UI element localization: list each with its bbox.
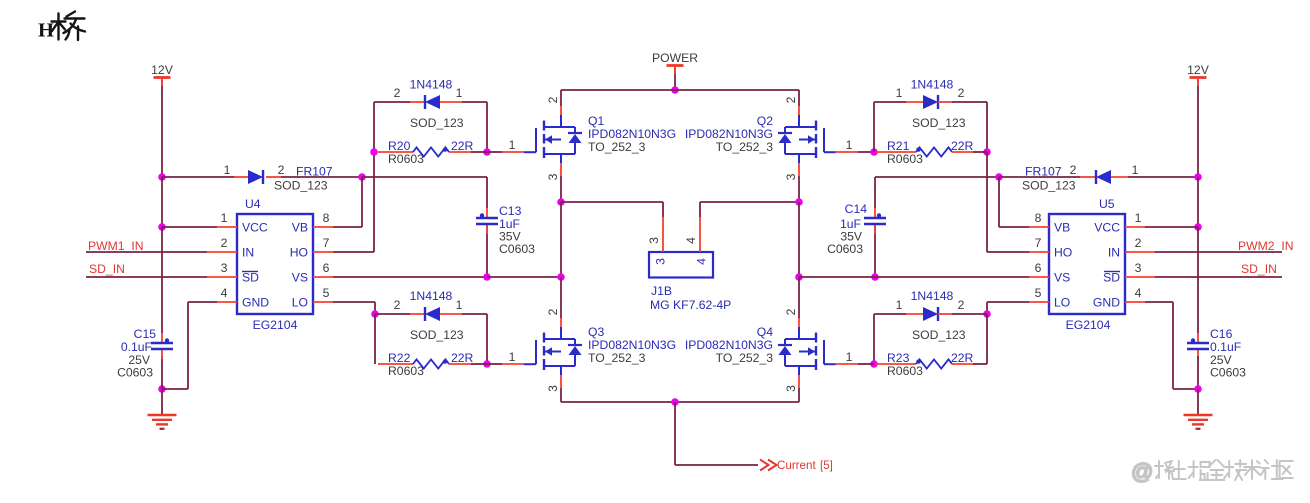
svg-text:C14: C14 xyxy=(845,202,868,216)
Q2 pin 3 (source) xyxy=(784,163,799,180)
svg-text:IPD082N10N3G: IPD082N10N3G xyxy=(588,338,676,352)
svg-text:Q4: Q4 xyxy=(757,325,773,339)
svg-text:MG KF7.62-4P: MG KF7.62-4P xyxy=(650,298,731,312)
svg-text:2: 2 xyxy=(1070,163,1077,177)
U5 designator xyxy=(1099,197,1115,211)
svg-text:TO_252_3: TO_252_3 xyxy=(588,351,646,365)
Q2 designator xyxy=(757,114,773,128)
U4 footprint EG2104 xyxy=(253,318,298,332)
svg-text:Q2: Q2 xyxy=(757,114,773,128)
U5 pin 4 GND xyxy=(1093,286,1145,310)
diode D 1N4148 lower-left xyxy=(410,307,462,321)
1N4148 lower-right pin 1 xyxy=(896,298,903,312)
U5 footprint EG2104 xyxy=(1066,318,1111,332)
Q1 designator xyxy=(588,114,604,128)
net label PWM1_IN xyxy=(88,239,144,253)
wire xyxy=(161,177,163,227)
svg-text:HO: HO xyxy=(1054,246,1072,260)
C16 voltage 25V xyxy=(1210,353,1233,367)
wire xyxy=(162,302,217,389)
U4 pin 7 HO xyxy=(290,236,333,260)
svg-text:22R: 22R xyxy=(951,351,974,365)
wire xyxy=(281,176,362,178)
wire xyxy=(471,151,487,153)
Q3 pin 3 (source) xyxy=(546,375,561,392)
svg-text:1: 1 xyxy=(846,350,853,364)
svg-text:C15: C15 xyxy=(134,327,157,341)
Q4 pin 2 (drain) xyxy=(784,308,799,327)
svg-text:3: 3 xyxy=(647,237,661,244)
U5 pin 6 VS xyxy=(1029,261,1070,285)
svg-text:C0603: C0603 xyxy=(117,366,153,380)
node 12V rail / U4 VCC xyxy=(158,223,166,231)
wire xyxy=(835,363,874,365)
diode D 1N4148 lower-right xyxy=(906,307,952,321)
svg-text:3: 3 xyxy=(221,261,228,275)
1N4148 upper-right designator xyxy=(911,78,954,92)
svg-text:VB: VB xyxy=(1054,221,1070,235)
connector J1B xyxy=(649,252,713,278)
C16 value 0.1uF xyxy=(1210,340,1241,354)
wire xyxy=(161,227,163,333)
U4 pin 5 LO xyxy=(292,286,333,310)
diode FR107 right xyxy=(1080,170,1128,184)
Q4 footprint TO_252_3 xyxy=(716,351,774,365)
1N4148 upper-left designator xyxy=(410,78,453,92)
svg-text:TO_252_3: TO_252_3 xyxy=(716,351,774,365)
svg-text:C0603: C0603 xyxy=(1210,366,1246,380)
C14 voltage 35V xyxy=(840,230,863,244)
svg-text:1: 1 xyxy=(509,350,516,364)
svg-text:2: 2 xyxy=(784,96,798,103)
1N4148 upper-left pin 2 xyxy=(394,86,401,100)
net label Current [5] with off-sheet arrow xyxy=(760,459,833,472)
svg-text:1: 1 xyxy=(1135,211,1142,225)
J1B pin 4 xyxy=(684,217,709,265)
node FR107 right cathode / VB tap xyxy=(995,173,1003,181)
wire xyxy=(799,276,875,278)
U5 pin 5 LO xyxy=(1029,286,1070,310)
R20 footprint R0603 xyxy=(388,152,424,166)
svg-text:IPD082N10N3G: IPD082N10N3G xyxy=(685,127,773,141)
svg-text:8: 8 xyxy=(323,211,330,225)
R22 footprint R0603 xyxy=(388,364,424,378)
wire xyxy=(560,90,562,106)
svg-text:4: 4 xyxy=(684,237,698,244)
svg-text:1N4148: 1N4148 xyxy=(911,289,954,303)
wire xyxy=(560,277,562,318)
node bottom bus / current shunt xyxy=(671,398,679,406)
svg-text:7: 7 xyxy=(1035,236,1042,250)
svg-text:SD_IN: SD_IN xyxy=(1241,262,1277,276)
wire xyxy=(835,151,874,153)
Q1 footprint TO_252_3 xyxy=(588,140,646,154)
Q1 pin 2 (drain) xyxy=(546,96,561,115)
FR107 left pin 2 xyxy=(278,163,285,177)
wire xyxy=(86,251,207,253)
R21 designator xyxy=(887,139,910,153)
diode D 1N4148 upper-right xyxy=(906,95,952,109)
1N4148 lower-right designator xyxy=(911,289,954,303)
wire xyxy=(1155,276,1282,278)
svg-text:LO: LO xyxy=(1054,296,1070,310)
svg-text:4: 4 xyxy=(1135,286,1142,300)
svg-text:0.1uF: 0.1uF xyxy=(121,340,152,354)
svg-text:12V: 12V xyxy=(1187,63,1210,77)
U5 pin 3 SD xyxy=(1103,261,1155,285)
resistor R23 xyxy=(876,359,973,368)
svg-text:5: 5 xyxy=(1035,286,1042,300)
wire xyxy=(560,176,562,202)
FR107 right pin 2 xyxy=(1070,163,1077,177)
C14 value 1uF xyxy=(840,217,861,231)
power port 12V (right) xyxy=(1187,63,1210,87)
capacitor C15 xyxy=(151,333,173,359)
wire xyxy=(999,177,1029,227)
wire xyxy=(1197,356,1199,389)
wire xyxy=(161,356,163,414)
node C16 / GND net right xyxy=(1194,385,1202,393)
svg-text:8: 8 xyxy=(1035,211,1042,225)
svg-text:3: 3 xyxy=(784,173,798,180)
C16 designator xyxy=(1210,327,1233,341)
svg-text:IPD082N10N3G: IPD082N10N3G xyxy=(588,127,676,141)
svg-text:1: 1 xyxy=(224,163,231,177)
node phase B node xyxy=(795,198,803,206)
wire xyxy=(487,151,524,153)
C13 voltage 35V xyxy=(499,230,522,244)
U4 pin 6 VS xyxy=(292,261,333,285)
capacitor C13 xyxy=(476,208,498,277)
Q4 designator xyxy=(757,325,773,339)
U4 designator xyxy=(245,197,261,211)
svg-text:TO_252_3: TO_252_3 xyxy=(716,140,774,154)
Q3 pin 2 (drain) xyxy=(546,308,561,327)
C15 voltage 25V xyxy=(128,353,151,367)
transistor Q2 xyxy=(778,115,836,163)
U4 pin 2 IN xyxy=(207,236,254,260)
Q1 pin 3 (source) xyxy=(546,163,561,180)
op-amp driver U5 EG2104 box xyxy=(1049,214,1125,314)
schematic title H-bridge xyxy=(38,12,85,42)
svg-text:6: 6 xyxy=(323,261,330,275)
svg-text:U5: U5 xyxy=(1099,197,1115,211)
wire xyxy=(333,102,374,252)
Q4 pin 3 (source) xyxy=(784,375,799,392)
node C13 low / VS net xyxy=(483,273,491,281)
wire xyxy=(798,202,800,277)
wire xyxy=(375,313,410,315)
svg-text:EG2104: EG2104 xyxy=(253,318,298,332)
svg-text:HO: HO xyxy=(290,246,308,260)
C14 designator xyxy=(845,202,868,216)
svg-text:2: 2 xyxy=(278,163,285,177)
wire xyxy=(874,313,906,315)
svg-text:SD: SD xyxy=(1103,271,1120,285)
U5 pin 2 IN xyxy=(1108,236,1155,260)
svg-text:2: 2 xyxy=(394,298,401,312)
svg-text:2: 2 xyxy=(784,308,798,315)
1N4148 lower-left pin 1 xyxy=(456,298,463,312)
R23 value 22R xyxy=(951,351,974,365)
svg-text:1: 1 xyxy=(896,298,903,312)
svg-text:Current: Current xyxy=(777,459,816,472)
svg-text:1: 1 xyxy=(1132,163,1139,177)
transistor Q1 xyxy=(524,115,582,163)
svg-text:LO: LO xyxy=(292,296,308,310)
svg-text:GND: GND xyxy=(242,296,269,310)
svg-text:SD_IN: SD_IN xyxy=(89,262,125,276)
svg-text:@: @ xyxy=(1131,459,1153,484)
svg-text:2: 2 xyxy=(546,96,560,103)
svg-text:0.1uF: 0.1uF xyxy=(1210,340,1241,354)
wire xyxy=(875,276,1029,278)
node C15 / GND net xyxy=(158,385,166,393)
svg-text:4: 4 xyxy=(221,286,228,300)
1N4148 upper-left pin 1 xyxy=(456,86,463,100)
1N4148 upper-right footprint SOD_123 xyxy=(912,116,966,130)
Q3 footprint TO_252_3 xyxy=(588,351,646,365)
FR107 left designator xyxy=(296,165,333,179)
Q3 value IPD082N10N3G xyxy=(588,338,676,352)
svg-text:22R: 22R xyxy=(951,139,974,153)
svg-text:VB: VB xyxy=(292,221,308,235)
FR107 right footprint SOD_123 xyxy=(1022,179,1076,193)
wire xyxy=(873,102,875,152)
wire xyxy=(561,401,799,403)
node R20 left / HO net xyxy=(370,148,378,156)
svg-text:1N4148: 1N4148 xyxy=(410,78,453,92)
wire xyxy=(700,202,799,217)
wire xyxy=(798,277,800,318)
FR107 right pin 1 xyxy=(1132,163,1139,177)
svg-text:Q1: Q1 xyxy=(588,114,604,128)
1N4148 lower-right footprint SOD_123 xyxy=(912,328,966,342)
svg-text:R23: R23 xyxy=(887,351,910,365)
svg-text:U4: U4 xyxy=(245,197,261,211)
svg-text:C0603: C0603 xyxy=(827,242,863,256)
wire xyxy=(798,90,800,106)
Q1 pin 1 (gate) xyxy=(509,138,516,152)
svg-text:1N4148: 1N4148 xyxy=(911,78,954,92)
wire xyxy=(1145,226,1198,228)
node R23 left / gate Q4 xyxy=(870,360,878,368)
wire xyxy=(560,388,562,402)
C16 footprint C0603 xyxy=(1210,366,1246,380)
U4 pin 8 VB xyxy=(292,211,333,235)
1N4148 lower-left designator xyxy=(410,289,453,303)
wire xyxy=(462,314,487,364)
node VS-B / Q4 drain xyxy=(795,273,803,281)
svg-text:[5]: [5] xyxy=(820,459,833,472)
capacitor C16 xyxy=(1187,333,1209,359)
svg-text:GND: GND xyxy=(1093,296,1120,310)
svg-text:R0603: R0603 xyxy=(887,364,923,378)
C14 footprint C0603 xyxy=(827,242,863,256)
diode FR107 left xyxy=(234,170,281,184)
node 12V rail / U5 VCC xyxy=(1194,223,1202,231)
Q2 pin 1 (gate) xyxy=(846,138,853,152)
svg-text:3: 3 xyxy=(1135,261,1142,275)
net label SD_IN (left) xyxy=(89,262,125,276)
Q1 value IPD082N10N3G xyxy=(588,127,676,141)
svg-text:SOD_123: SOD_123 xyxy=(410,328,464,342)
svg-text:R21: R21 xyxy=(887,139,910,153)
U5 pin 8 VB xyxy=(1029,211,1070,235)
wire xyxy=(161,86,163,177)
C15 value 0.1uF xyxy=(121,340,152,354)
wire xyxy=(374,314,376,364)
diode D 1N4148 upper-left xyxy=(410,95,462,109)
R22 value 22R xyxy=(451,351,474,365)
transistor Q4 xyxy=(778,327,836,375)
svg-text:22R: 22R xyxy=(451,139,474,153)
1N4148 upper-left footprint SOD_123 xyxy=(410,116,464,130)
svg-text:2: 2 xyxy=(1135,236,1142,250)
svg-text:VS: VS xyxy=(1054,271,1070,285)
watermark @xitu juejin (decorative, simplified) xyxy=(1131,459,1293,484)
wire xyxy=(1155,251,1282,253)
capacitor C14 xyxy=(864,177,886,277)
Q2 footprint TO_252_3 xyxy=(716,140,774,154)
net label SD_IN (right) xyxy=(1241,262,1277,276)
wire xyxy=(986,314,988,364)
wire xyxy=(561,89,799,91)
wire xyxy=(952,102,987,152)
wire xyxy=(674,74,676,90)
wire xyxy=(798,176,800,202)
R20 value 22R xyxy=(451,139,474,153)
R23 footprint R0603 xyxy=(887,364,923,378)
svg-text:R0603: R0603 xyxy=(887,152,923,166)
svg-text:R0603: R0603 xyxy=(388,364,424,378)
resistor R22 xyxy=(378,359,471,368)
wire xyxy=(462,102,487,152)
wire xyxy=(487,276,561,278)
wire xyxy=(875,176,999,178)
svg-text:IN: IN xyxy=(1108,246,1120,260)
J1B designator xyxy=(651,284,672,298)
svg-text:PWM1_IN: PWM1_IN xyxy=(88,239,144,253)
power port POWER xyxy=(652,51,698,75)
FR107 left footprint SOD_123 xyxy=(274,179,328,193)
C13 value 1uF xyxy=(499,217,520,231)
wire xyxy=(1197,86,1199,177)
R20 designator xyxy=(388,139,411,153)
node R21 left / gate Q2 xyxy=(870,148,878,156)
node R22 right / gate Q3 xyxy=(483,360,491,368)
svg-text:PWM2_IN: PWM2_IN xyxy=(1238,239,1294,253)
wire xyxy=(471,363,487,365)
op-amp driver U4 EG2104 box xyxy=(237,214,313,314)
R21 footprint R0603 xyxy=(887,152,923,166)
svg-text:4: 4 xyxy=(695,258,709,265)
svg-text:1: 1 xyxy=(896,86,903,100)
svg-text:SOD_123: SOD_123 xyxy=(410,116,464,130)
Q3 pin 1 (gate) xyxy=(509,350,516,364)
svg-text:22R: 22R xyxy=(451,351,474,365)
svg-text:SOD_123: SOD_123 xyxy=(912,116,966,130)
node 12V rail / FR107 anode xyxy=(158,173,166,181)
svg-text:VCC: VCC xyxy=(242,221,268,235)
Q2 value IPD082N10N3G xyxy=(685,127,773,141)
Q3 designator xyxy=(588,325,604,339)
svg-text:Q3: Q3 xyxy=(588,325,604,339)
1N4148 lower-left footprint SOD_123 xyxy=(410,328,464,342)
svg-text:VCC: VCC xyxy=(1094,221,1120,235)
J1B value MG KF7.62-4P xyxy=(650,298,731,312)
wire xyxy=(374,101,410,103)
resistor R21 xyxy=(876,147,973,156)
svg-text:1: 1 xyxy=(846,138,853,152)
svg-text:C16: C16 xyxy=(1210,327,1233,341)
svg-text:1: 1 xyxy=(509,138,516,152)
wire xyxy=(874,101,906,103)
Q4 value IPD082N10N3G xyxy=(685,338,773,352)
svg-text:12V: 12V xyxy=(151,63,174,77)
wire xyxy=(162,176,234,178)
wire xyxy=(487,363,524,365)
node C14 low / VS-B net xyxy=(871,273,879,281)
svg-text:7: 7 xyxy=(323,236,330,250)
power port 12V (left) xyxy=(151,63,174,87)
wire xyxy=(1145,302,1198,389)
wire xyxy=(873,314,875,364)
svg-text:1: 1 xyxy=(221,211,228,225)
R22 designator xyxy=(388,351,411,365)
wire xyxy=(798,388,800,402)
wire xyxy=(1197,389,1199,414)
net label PWM2_IN xyxy=(1238,239,1294,253)
wire xyxy=(987,152,1029,252)
node VS-A / Q3 drain xyxy=(557,273,565,281)
wire xyxy=(162,226,217,228)
U4 pin 1 VCC xyxy=(217,211,268,235)
svg-text:2: 2 xyxy=(958,86,965,100)
FR107 right designator xyxy=(1025,165,1062,179)
svg-text:2: 2 xyxy=(546,308,560,315)
svg-text:SOD_123: SOD_123 xyxy=(1022,179,1076,193)
wire xyxy=(1128,176,1198,178)
U4 pin 3 SD xyxy=(207,261,259,285)
Q2 pin 2 (drain) xyxy=(784,96,799,115)
node R20 right / gate Q1 xyxy=(483,148,491,156)
svg-text:IN: IN xyxy=(242,246,254,260)
R23 designator xyxy=(887,351,910,365)
U5 pin 7 HO xyxy=(1029,236,1072,260)
U4 pin 4 GND xyxy=(217,286,269,310)
svg-text:POWER: POWER xyxy=(652,51,698,65)
C15 footprint C0603 xyxy=(117,366,153,380)
transistor Q3 xyxy=(524,327,582,375)
R21 value 22R xyxy=(951,139,974,153)
svg-text:TO_252_3: TO_252_3 xyxy=(588,140,646,154)
wire xyxy=(973,151,987,153)
wire xyxy=(999,176,1080,178)
svg-text:2: 2 xyxy=(958,298,965,312)
svg-text:SD: SD xyxy=(242,271,259,285)
ground (left) xyxy=(148,415,177,429)
svg-text:1: 1 xyxy=(456,298,463,312)
wire xyxy=(987,302,1029,314)
svg-text:VS: VS xyxy=(292,271,308,285)
Q4 pin 1 (gate) xyxy=(846,350,853,364)
svg-text:3: 3 xyxy=(546,173,560,180)
1N4148 upper-right pin 1 xyxy=(896,86,903,100)
wire xyxy=(675,402,758,465)
1N4148 upper-right pin 2 xyxy=(958,86,965,100)
node POWER / top bus xyxy=(671,86,679,94)
